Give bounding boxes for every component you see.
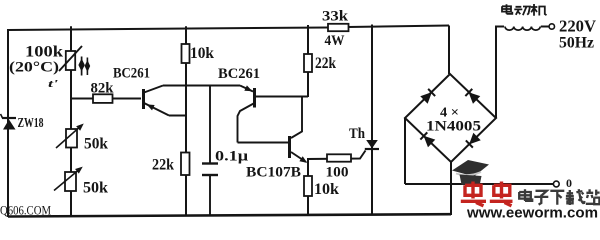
svg-text:BC107B: BC107B [246, 165, 301, 181]
capacitor 0.1u [202, 86, 218, 216]
wire thermistor branch vertical [70, 26, 72, 215]
svg-text:BC261: BC261 [113, 66, 150, 82]
wire drop to bridge top [448, 26, 450, 75]
svg-text:22k: 22k [152, 157, 174, 174]
transistor Q2 BC261 [238, 85, 255, 142]
bridge rectifier 4x 1N4005 [405, 74, 496, 162]
svg-text:t': t' [48, 79, 58, 90]
svg-text:10k: 10k [190, 45, 214, 62]
svg-text:10k: 10k [314, 181, 339, 198]
wire 22k pullup vertical [307, 25, 309, 97]
svg-text:100: 100 [326, 165, 349, 181]
svg-text:BC261: BC261 [218, 66, 260, 82]
站 [586, 189, 600, 204]
watermark chong chong (red bugs) [461, 182, 513, 206]
resistor R 33k 4W [328, 24, 349, 31]
svg-text:Th: Th [349, 126, 365, 142]
wire left border [7, 29, 9, 217]
zener diode ZW18 [1, 114, 17, 130]
wire Q2 base to 22k node [256, 96, 308, 98]
wire bottom rail [8, 214, 451, 216]
wire bridge left vertex down [404, 118, 406, 184]
svg-text:220V: 220V [559, 17, 597, 36]
svg-text:1N4005: 1N4005 [426, 119, 481, 135]
电 [519, 189, 532, 201]
transistor Q3 BC107B [290, 97, 309, 165]
potentiometer 50k lower [54, 164, 85, 191]
电 [502, 4, 512, 14]
wire top rail right segment [348, 26, 449, 28]
动 [514, 7, 530, 16]
wire 10k/22k divider vertical [185, 26, 187, 215]
svg-text:(20°C): (20°C) [9, 60, 59, 76]
wire Q1 emitter to divider [169, 115, 186, 117]
svg-text:4W: 4W [325, 33, 345, 49]
resistor 22k emitter [181, 153, 190, 176]
载 [566, 189, 585, 205]
resistor 10k upper [182, 44, 190, 63]
wire bridge bottom vertex down [450, 162, 452, 215]
resistor 22k pullup [304, 54, 312, 72]
svg-text:www.eeworm.com: www.eeworm.com [466, 206, 598, 221]
svg-text:0.1μ: 0.1μ [215, 149, 249, 165]
svg-text:Q606.COM: Q606.COM [0, 203, 51, 218]
wire top rail left segment [8, 28, 328, 31]
thyristor Th [365, 25, 379, 216]
svg-text:100k: 100k [25, 44, 63, 61]
transistor Q1 BC261 [144, 86, 170, 116]
wire Q3 emitter node down [307, 160, 309, 215]
机 [531, 4, 547, 16]
wire Q1 collector rail [163, 85, 240, 87]
watermark text dianzi xiazaizhan (grey glyphs) [519, 189, 599, 205]
resistor 82k [71, 98, 141, 100]
wire neutral line to terminal [405, 183, 553, 185]
svg-text:ZW18: ZW18 [18, 115, 44, 130]
svg-text:22k: 22k [315, 55, 336, 72]
svg-text:0: 0 [566, 176, 572, 190]
svg-text:50k: 50k [83, 180, 108, 197]
potentiometer 50k upper [56, 121, 86, 148]
thermistor trend arrows [78, 57, 90, 76]
svg-text:50k: 50k [84, 136, 108, 153]
下 [550, 191, 564, 205]
terminal 0 [553, 181, 559, 187]
子 [534, 191, 548, 205]
svg-text:50Hz: 50Hz [559, 35, 594, 52]
motor line + coil [496, 24, 555, 118]
wire Q2 collector to Q3 base [238, 142, 289, 144]
resistor 10k gate-cathode [304, 176, 312, 196]
label motor (dian dong ji) hand glyphs [502, 4, 547, 16]
watermark cap logo [452, 160, 489, 186]
wire gate + resistor 100 [307, 151, 366, 160]
svg-text:33k: 33k [322, 9, 349, 25]
svg-text:82k: 82k [91, 81, 115, 97]
thermistor 100k (20 C) [59, 46, 82, 71]
